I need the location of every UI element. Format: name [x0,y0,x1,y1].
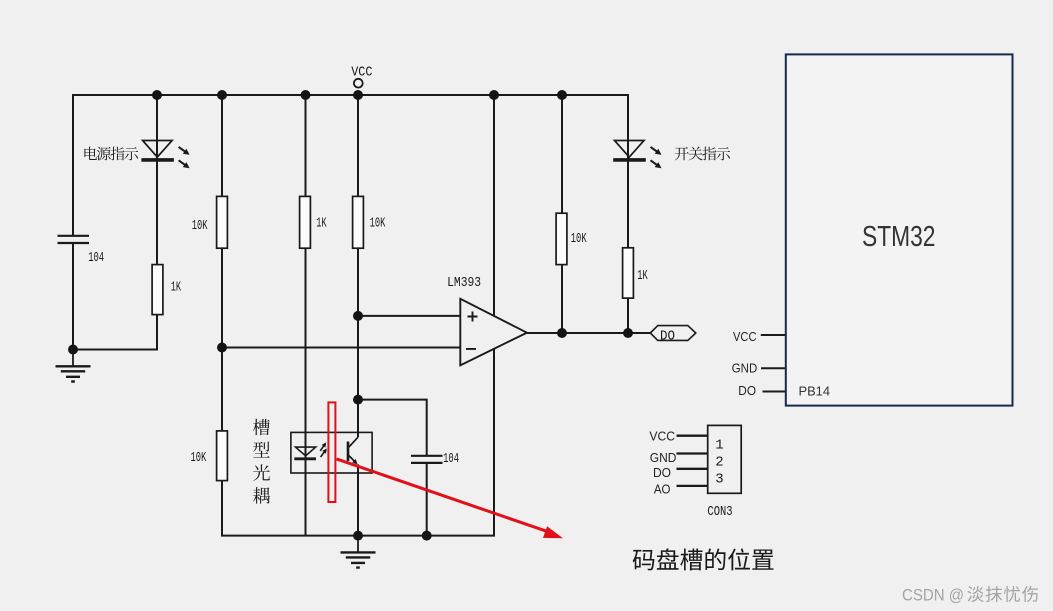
svg-text:DO: DO [653,465,671,480]
svg-text:104: 104 [88,250,104,266]
svg-text:VCC: VCC [351,64,372,80]
svg-text:LM393: LM393 [447,275,481,291]
svg-text:1K: 1K [316,216,327,232]
svg-text:10K: 10K [370,216,386,232]
svg-text:GND: GND [650,450,677,465]
svg-text:CON3: CON3 [707,504,732,520]
svg-text:STM32: STM32 [862,221,936,253]
svg-text:PB14: PB14 [799,384,831,399]
svg-text:VCC: VCC [733,329,757,344]
svg-text:CSDN @: CSDN @ [902,585,964,604]
svg-text:10K: 10K [191,450,207,466]
svg-text:10K: 10K [192,218,208,234]
svg-text:AO: AO [654,482,671,497]
svg-text:2: 2 [715,455,723,471]
svg-text:10K: 10K [571,231,587,247]
svg-text:3: 3 [715,472,723,488]
svg-text:DO: DO [738,383,756,398]
svg-text:VCC: VCC [649,428,675,443]
svg-text:1K: 1K [171,279,182,295]
svg-text:1: 1 [715,438,723,454]
svg-text:1K: 1K [637,268,648,284]
svg-text:GND: GND [732,360,757,375]
svg-text:104: 104 [443,451,459,467]
svg-text:DO: DO [660,329,675,345]
